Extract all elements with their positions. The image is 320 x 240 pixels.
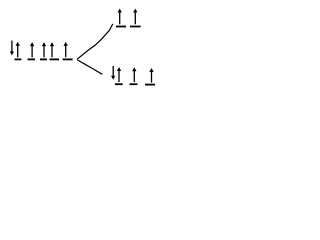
upper eg level bar T1: [116, 26, 126, 28]
spin-up electron arrow on B3: [149, 68, 153, 83]
splitting branch line to lower t2g levels: [77, 60, 102, 74]
spin-up electron arrow on B2: [132, 67, 136, 82]
lower t2g level bar B2: [130, 83, 138, 85]
spin-up electron arrow on T1: [118, 9, 122, 25]
spin-up electron arrow on L5: [64, 42, 68, 57]
lower t2g level bar B1: [115, 83, 123, 85]
spin-up electron arrow on L1: [16, 42, 20, 58]
lower t2g level bar B3: [145, 84, 155, 86]
spin-down electron arrow on L1: [10, 41, 14, 56]
degenerate d-orbital level bar L3: [40, 58, 47, 60]
degenerate d-orbital level bar L4: [50, 58, 60, 60]
spin-up electron arrow on L2: [30, 42, 34, 57]
degenerate d-orbital level bar L5: [63, 58, 73, 60]
spin-up electron arrow on L3: [42, 42, 46, 57]
spin-up electron arrow on L4: [50, 42, 54, 57]
upper eg level bar T2: [130, 26, 141, 28]
spin-up electron arrow on B1: [117, 67, 121, 82]
spin-up electron arrow on T2: [133, 9, 137, 25]
degenerate d-orbital level bar L1: [15, 58, 22, 60]
spin-down electron arrow on B1: [111, 66, 115, 80]
degenerate d-orbital level bar L2: [28, 58, 36, 60]
splitting branch line to upper eg levels: [77, 24, 113, 59]
